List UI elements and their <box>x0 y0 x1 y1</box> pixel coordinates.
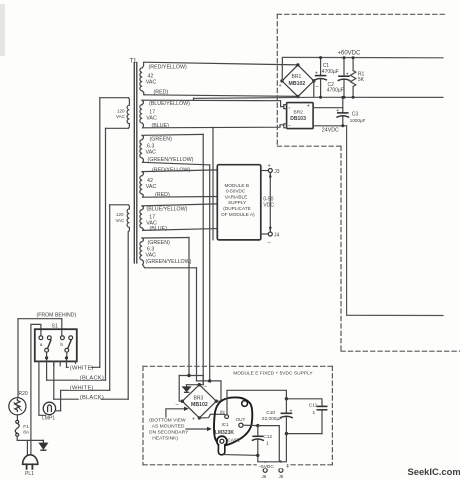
S1 pole b contacts <box>61 336 65 340</box>
module E dashed boundary <box>143 366 332 465</box>
svg-text:(BLUE): (BLUE) <box>150 226 168 232</box>
junction dots at S1 bottom <box>45 356 68 359</box>
junction dot C10 top <box>285 397 288 400</box>
svg-text:J6: J6 <box>262 474 267 479</box>
wire C3 vertical tie to 0V rail <box>342 97 344 113</box>
wire C11 bottom loop to C10 bottom <box>286 433 322 435</box>
svg-text:AS MOUNTED: AS MOUNTED <box>152 423 185 429</box>
svg-text:(DUPLICATE: (DUPLICATE <box>223 206 251 211</box>
wire corner down to BR3 left vertex <box>179 376 182 402</box>
chassis ground symbol <box>42 440 44 443</box>
0V rail stub to W2 top wire <box>193 98 195 100</box>
wire bundle join at BR3 (v1+v3) <box>179 375 203 377</box>
svg-text:(RED/YELLOW): (RED/YELLOW) <box>152 168 190 174</box>
svg-text:~: ~ <box>288 123 291 128</box>
wire OUT to branch <box>243 424 258 426</box>
bridge rectifier BR2 DB103 box <box>287 103 314 129</box>
capacitor C12 <box>252 426 263 456</box>
S1 pole a arm <box>48 340 51 348</box>
svg-text:–: – <box>204 384 208 390</box>
svg-text:HEATSINK): HEATSINK) <box>152 435 178 441</box>
svg-text:SUPPLY: SUPPLY <box>228 200 247 205</box>
wire from S1 bottom down for BLACK2 <box>53 361 55 399</box>
svg-text:5K: 5K <box>358 77 365 83</box>
svg-text:T1: T1 <box>130 59 138 65</box>
svg-text:IC1: IC1 <box>222 422 230 427</box>
svg-text:CASE: CASE <box>228 437 241 442</box>
svg-text:–: – <box>268 239 272 245</box>
lamp LMP1 <box>43 402 55 414</box>
svg-text:~: ~ <box>288 105 291 110</box>
svg-text:6.3: 6.3 <box>147 143 154 149</box>
svg-text:MB102: MB102 <box>289 81 306 87</box>
svg-text:(WHITE): (WHITE) <box>70 365 94 371</box>
0-50 VDC annotation arrow between J3 and J4 <box>269 173 271 233</box>
capacitor C10 22000uF <box>281 399 292 434</box>
terminal J4 <box>261 233 269 235</box>
svg-text:0-50VDC: 0-50VDC <box>226 189 246 194</box>
wire bus black2 vertical (P2 bottom) <box>127 232 129 399</box>
wire BR3 + to IN pin <box>199 414 224 418</box>
wire switch contact c4 feed <box>61 319 63 336</box>
ground symbol at BR3 <box>186 385 199 387</box>
W1 top wire (RED/YELLOW) to BR1 top vertex <box>144 62 298 65</box>
terminal J3 <box>261 170 269 172</box>
W1 bottom wire (RED) to BR1 bottom vertex <box>145 95 298 97</box>
IN pin <box>225 415 229 419</box>
wire c1 feed jog <box>31 324 41 455</box>
junction dot OUT branch <box>256 424 259 427</box>
wire S1 tab to lamp left lead <box>39 361 46 415</box>
svg-text:C3: C3 <box>352 111 359 117</box>
svg-text:VDC: VDC <box>263 203 274 209</box>
wire fuse to plug left prong <box>17 436 43 455</box>
svg-text:(FROM BEHIND): (FROM BEHIND) <box>37 313 77 319</box>
svg-text:(GREEN): (GREEN) <box>148 240 171 246</box>
annotation arrow to LM323K <box>186 428 208 430</box>
junction dots on rails <box>319 56 355 99</box>
W6 bottom wire (GREEN/YELLOW) to bundle v2 <box>143 265 197 268</box>
BR1 vertex dots <box>280 63 315 98</box>
svg-text:ON SECONDARY: ON SECONDARY <box>149 429 189 435</box>
W3 top wire (GREEN) to bundle v3 <box>142 133 203 136</box>
W2 top wire (BLUE/YELLOW) to BR2 jog <box>142 100 284 106</box>
svg-text:C10: C10 <box>266 410 275 416</box>
wire +60V rail corner down to BR1 + (left vertex) <box>281 58 283 81</box>
resistor R1 5K <box>350 58 355 98</box>
svg-text:VAC: VAC <box>146 79 157 85</box>
svg-text:(BLUE/YELLOW): (BLUE/YELLOW) <box>149 101 190 107</box>
wire P1 bottom jog <box>106 127 129 129</box>
svg-text:(BLUE/YELLOW): (BLUE/YELLOW) <box>147 206 188 212</box>
wire common a down <box>46 352 48 380</box>
regulator IC1 LM323K TO-3 can outline <box>214 397 252 445</box>
(BLACK) label 1 <box>79 374 104 381</box>
svg-text:VAC: VAC <box>146 184 157 190</box>
plug prongs <box>27 464 33 469</box>
bundle vertical v1 (W6 top feed) <box>188 238 190 376</box>
svg-text:–: – <box>316 84 320 90</box>
wire common b down <box>66 352 68 367</box>
svg-text:DB103: DB103 <box>290 116 306 122</box>
+60VDC rail <box>282 56 443 58</box>
wire lamp right lead to WHITE2 branch <box>55 410 60 412</box>
bundle vertical v4 (W3 bottom feed) <box>209 165 211 381</box>
R20 wiper arrow <box>14 403 22 411</box>
wire C10 rail right to C11 <box>286 399 322 403</box>
svg-text:VAC: VAC <box>116 114 126 119</box>
output terminal J5 (plus) <box>279 468 283 472</box>
annotation text BOTTOM VIEW <box>149 417 189 441</box>
capacitor C1 4700uF <box>315 58 326 98</box>
svg-text:BR1: BR1 <box>292 74 302 80</box>
wire R20 to fuse <box>16 415 18 420</box>
W4 bottom wire (RED) into module B <box>143 196 217 199</box>
W6 top wire (GREEN) to bundle v1 <box>142 237 189 240</box>
W3 bottom wire (GREEN/YELLOW) to bundle v4 <box>143 162 210 165</box>
junction dot C10 bottom <box>285 432 288 435</box>
capacitor C3 1000uF <box>337 113 348 126</box>
wire BR2 + output to C3 top <box>313 107 343 109</box>
wire WHITE2 with lamp branch <box>61 390 110 411</box>
dashed boundary of upper module area <box>277 14 460 351</box>
W2 bottom wire (BLUE) to BR2 lower tab <box>143 125 284 128</box>
secondary W4 winding 42 VAC <box>140 172 144 198</box>
svg-text:J3: J3 <box>274 169 280 175</box>
svg-text:LM323K: LM323K <box>215 430 235 436</box>
wire 24V feed down and right exiting module area <box>347 126 443 316</box>
svg-text:4700µF: 4700µF <box>322 69 339 75</box>
svg-text:(WHITE): (WHITE) <box>70 385 94 391</box>
wire IN node up and over to C10 <box>227 390 286 415</box>
TO-3 case lug <box>217 436 227 446</box>
svg-text:b: b <box>60 342 63 348</box>
junction dot v1 <box>187 374 190 377</box>
svg-text:VAC: VAC <box>116 218 126 223</box>
svg-text:J5: J5 <box>279 474 284 479</box>
svg-text:MODULE B: MODULE B <box>225 183 249 188</box>
svg-text:VAC: VAC <box>146 150 157 156</box>
svg-text:120: 120 <box>117 108 125 113</box>
secondary W3 winding 6.3 VAC <box>140 135 144 162</box>
svg-text:+: + <box>279 83 282 89</box>
svg-text:22,000µF: 22,000µF <box>262 416 282 422</box>
scan smudge top-left <box>0 4 5 56</box>
svg-text:MODULE E FIXED + 5VDC SUPPLY: MODULE E FIXED + 5VDC SUPPLY <box>233 370 313 376</box>
BR2 input tabs <box>284 105 287 128</box>
svg-text:VARIABLE: VARIABLE <box>225 194 248 199</box>
module B text <box>221 183 255 217</box>
svg-text:IN: IN <box>220 410 225 415</box>
svg-text:1000µF: 1000µF <box>350 118 366 123</box>
S1 bottom tabs <box>54 361 76 365</box>
output terminal J6 (minus) <box>263 468 267 472</box>
svg-text:VAC: VAC <box>146 115 157 121</box>
svg-text:+: + <box>315 71 318 77</box>
(BLACK) label 2 <box>79 394 104 401</box>
wire BR2 bottom output (24VDC) <box>313 125 347 127</box>
W4 top wire (RED/YELLOW) into module B <box>142 170 217 172</box>
svg-text:OF MODULE A): OF MODULE A) <box>221 212 255 217</box>
wire common jog down to minus terminal <box>258 455 265 468</box>
svg-text:+: + <box>346 71 349 77</box>
fuse F1 8A <box>16 420 19 423</box>
BR3 vertex dots <box>181 383 218 420</box>
module B box <box>217 165 260 240</box>
annotation arrow to BR3 <box>166 409 185 417</box>
svg-text:1: 1 <box>266 440 269 446</box>
svg-text:+: + <box>290 409 293 415</box>
wire left feed down to R20 <box>17 319 19 398</box>
capacitor C11 <box>317 403 326 434</box>
wire BR1 - (right vertex) down to 0V rail <box>313 81 315 97</box>
svg-text:–5VDC: –5VDC <box>258 464 274 470</box>
plug PL1 body <box>23 455 38 465</box>
wire WHITE1: common b to bus <box>67 366 100 368</box>
svg-text:MB102: MB102 <box>191 402 208 408</box>
svg-text:R20: R20 <box>19 391 28 397</box>
transformer T1 core <box>134 63 137 264</box>
TO-3 mounting hole <box>242 401 248 407</box>
S1 pole a contacts <box>39 336 43 340</box>
svg-text:120: 120 <box>116 212 124 217</box>
bridge rectifier BR1 MB102 diamond <box>282 65 314 97</box>
bundle vertical v2 (W6 bottom feed) <box>196 268 198 381</box>
svg-text:PL1: PL1 <box>25 471 34 477</box>
svg-text:LMP1: LMP1 <box>42 416 55 422</box>
svg-text:+: + <box>286 464 289 470</box>
wire bus black1 vertical <box>105 128 107 380</box>
svg-text:+: + <box>336 108 339 114</box>
svg-text:J4: J4 <box>274 232 280 238</box>
svg-text:OUT: OUT <box>236 417 246 422</box>
svg-text:BR3: BR3 <box>194 396 204 402</box>
junction dot CASE/common <box>256 454 259 457</box>
wire CASE to common <box>224 454 258 457</box>
wire bus white2 vertical <box>109 205 111 390</box>
(WHITE) label 1 <box>69 364 94 372</box>
svg-text:–: – <box>176 402 180 408</box>
svg-text:a: a <box>40 343 43 348</box>
svg-text:F1: F1 <box>23 424 29 430</box>
wire P2 top to left <box>110 204 129 206</box>
secondary W5 winding 17 VAC <box>140 206 144 231</box>
svg-text:1: 1 <box>313 410 316 416</box>
svg-text:(GREEN/YELLOW): (GREEN/YELLOW) <box>146 259 192 265</box>
svg-text:BR2: BR2 <box>294 110 304 116</box>
svg-text:+60VDC: +60VDC <box>338 50 362 56</box>
wire OUT branch right and down to +5V terminal <box>258 426 281 469</box>
wire v2 and v4 join to BR3 right vertex <box>197 381 222 401</box>
secondary W6 winding 6.3 VAC <box>140 238 144 265</box>
junction dot v4 <box>208 379 211 382</box>
svg-text:C12: C12 <box>263 434 272 440</box>
switch S1 box <box>35 329 77 361</box>
svg-text:+: + <box>192 417 195 423</box>
wire BLACK1: common a to bus <box>47 379 106 381</box>
transformer primary P1 winding (120 VAC) <box>127 98 129 129</box>
wire stub branch down from W2 bottom at x=211 <box>212 127 214 239</box>
svg-text:+: + <box>307 104 310 110</box>
secondary W2 winding 17 VAC <box>140 100 144 128</box>
bridge rectifier BR3 MB102 diamond <box>182 385 216 418</box>
junction dots C3 <box>341 96 344 127</box>
wire BLACK2 to bus <box>54 398 128 400</box>
wire P1 top to left bus <box>100 97 129 99</box>
capacitor C2 4700uF <box>338 58 349 98</box>
svg-text:24VDC: 24VDC <box>322 127 339 133</box>
wire v3 down to BR3 top vertex <box>199 376 203 385</box>
W5 bottom wire (BLUE) into module B <box>143 229 217 231</box>
svg-text:VAC: VAC <box>146 252 157 258</box>
svg-text:(RED/YELLOW): (RED/YELLOW) <box>149 64 187 70</box>
svg-text:SeekIC.com: SeekIC.com <box>408 466 460 477</box>
W5 top wire (BLUE/YELLOW) into module B <box>142 204 217 206</box>
wire from-behind leader line <box>18 318 62 320</box>
svg-text:C11: C11 <box>309 403 318 409</box>
transformer primary P2 winding (120 VAC) <box>127 205 129 232</box>
S1 pole b arm <box>68 340 71 348</box>
svg-text:(BOTTOM VIEW: (BOTTOM VIEW <box>149 417 186 423</box>
secondary W1 winding 42 VAC <box>140 63 145 95</box>
bundle vertical v3 (W3 top feed) <box>202 134 204 384</box>
OUT pin <box>239 423 243 427</box>
svg-text:(BLACK): (BLACK) <box>80 376 104 382</box>
svg-text:8A: 8A <box>23 429 30 435</box>
svg-text:(BLACK): (BLACK) <box>80 395 104 401</box>
wire C10/C11 common down to minus terminal <box>265 434 286 462</box>
svg-text:+: + <box>268 163 271 169</box>
svg-text:(GREEN): (GREEN) <box>150 136 173 142</box>
output labels <box>257 463 287 470</box>
wire bus white1 vertical <box>99 98 101 368</box>
svg-text:4700µF: 4700µF <box>327 88 344 94</box>
0V mid rail <box>194 97 444 98</box>
(WHITE) label 2 <box>69 384 94 391</box>
